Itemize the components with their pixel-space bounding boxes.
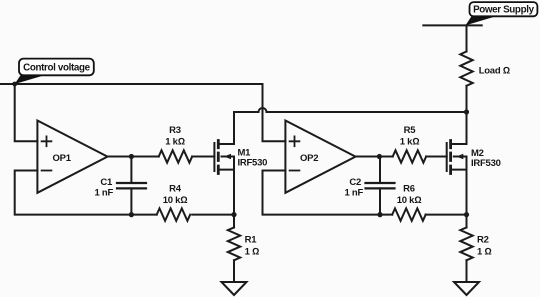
svg-text:C1: C1 [100,177,113,188]
resistor R5 1 kOhm [393,125,426,163]
resistor R2 1 Ohm [460,215,491,282]
svg-text:M2: M2 [471,148,484,159]
wire M1 drain up [233,112,235,144]
wire M1 source down [233,170,235,215]
resistor R6 10 kOhm [392,184,425,221]
resistor Load [460,52,510,113]
wire OP2 -input feedback [263,171,393,215]
node C2 bottom junction [377,212,382,217]
ground (under R2) [454,282,479,295]
svg-text:1 Ω: 1 Ω [477,246,491,257]
svg-text:Control voltage: Control voltage [23,63,90,74]
wire OP2 output [356,156,393,158]
svg-text:R6: R6 [403,184,415,195]
wire M2 source down [466,170,468,215]
svg-text:R2: R2 [477,234,489,245]
op-amp OP2 [285,121,355,193]
svg-text:R4: R4 [169,184,182,195]
capacitor C1 [94,157,146,215]
wire supply to load [466,25,468,51]
node OP2 output junction [377,154,382,159]
wire drain rail with hop over control line [234,108,467,112]
node control voltage junction [12,82,17,87]
svg-text:1 kΩ: 1 kΩ [400,137,420,148]
ground (under R1) [222,282,247,295]
svg-text:R5: R5 [404,125,417,136]
wire R3 to M1 gate [192,156,214,158]
callout Power Supply [466,2,538,25]
svg-text:Power Supply: Power Supply [473,5,534,16]
callout Control voltage [15,59,94,84]
capacitor C2 [344,157,394,215]
resistor R4 10 kOhm [157,184,190,221]
svg-text:Load Ω: Load Ω [479,66,510,77]
wire OP1 output [108,156,159,158]
wire bottom right (R6 to M2 source node) [426,214,467,216]
svg-text:M1: M1 [238,147,252,158]
svg-text:1 kΩ: 1 kΩ [165,137,185,148]
resistor R1 1 Ohm [228,215,259,282]
node C1 bottom junction [129,212,134,217]
transistor M2 IRF530 [447,141,501,174]
wire OP1 +input [15,84,38,141]
wire OP1 -input feedback [15,171,157,215]
svg-text:1 nF: 1 nF [94,188,113,199]
wire OP2 +input vertical [263,84,286,141]
svg-text:1 Ω: 1 Ω [245,246,259,257]
wire R5 to M2 gate [426,156,447,158]
wire power supply rail [423,24,481,26]
wire M2 drain up to load node [466,112,468,144]
transistor M1 IRF530 [214,141,267,174]
wire bottom left (R4 to M1 source node) [192,214,234,216]
resistor R3 1 kOhm [159,125,192,163]
svg-text:OP1: OP1 [53,153,72,164]
svg-text:IRF530: IRF530 [238,158,268,169]
svg-text:10 kΩ: 10 kΩ [163,195,188,206]
svg-text:R3: R3 [169,125,181,136]
svg-text:C2: C2 [349,177,361,188]
wire control-voltage top rail [0,83,263,85]
svg-text:1 nF: 1 nF [344,188,363,199]
svg-text:OP2: OP2 [300,153,318,164]
node OP1 output junction [129,154,134,159]
svg-text:R1: R1 [245,234,258,245]
node M1 source junction [231,212,236,217]
svg-text:IRF530: IRF530 [471,158,501,169]
svg-text:10 kΩ: 10 kΩ [397,195,422,206]
node M2 source junction [464,212,469,217]
node load junction [464,109,469,114]
op-amp OP1 [37,121,107,193]
